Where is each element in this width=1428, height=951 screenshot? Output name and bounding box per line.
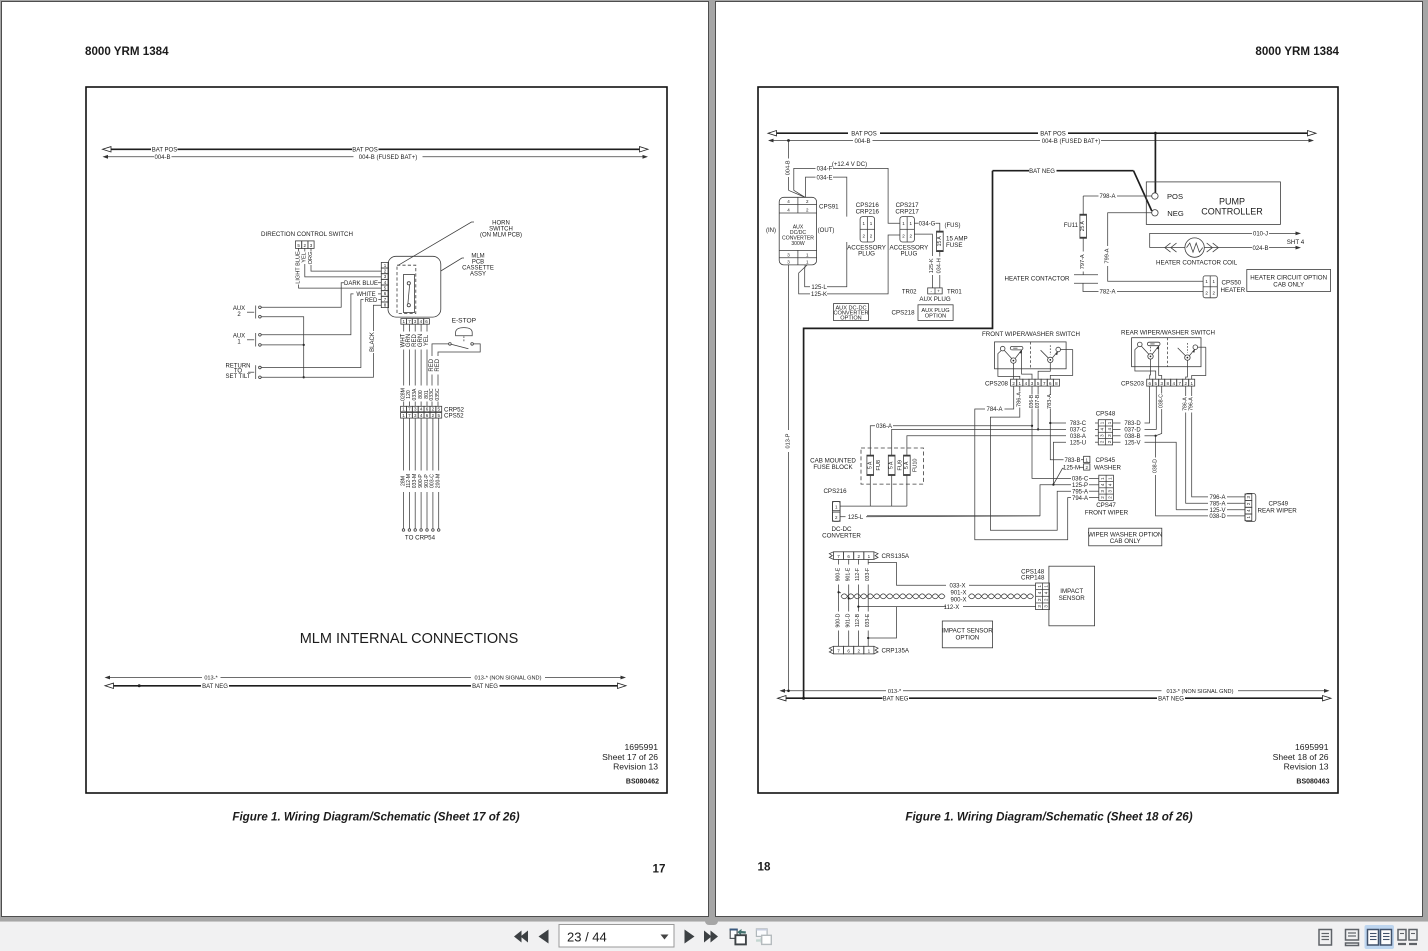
svg-text:DIRECTION CONTROL SWITCH: DIRECTION CONTROL SWITCH bbox=[261, 231, 353, 238]
svg-text:7: 7 bbox=[1178, 381, 1181, 386]
wire 037-C row FU9 bbox=[1095, 428, 1098, 430]
front wiper right blade bbox=[1041, 350, 1049, 358]
svg-text:037-B: 037-B bbox=[1035, 394, 1041, 408]
diagram border frame sheet 17 bbox=[86, 87, 667, 793]
junction dot 901-E braid bbox=[848, 597, 850, 599]
svg-text:4: 4 bbox=[420, 407, 423, 412]
svg-text:2: 2 bbox=[835, 515, 838, 520]
box IMPACT SENSOR OPTION bbox=[942, 621, 992, 648]
svg-text:2: 2 bbox=[1100, 496, 1105, 499]
svg-text:1: 1 bbox=[402, 413, 405, 418]
wire 004-B bus sheet18 bbox=[773, 140, 853, 142]
svg-text:ORG: ORG bbox=[308, 252, 314, 265]
svg-text:FU9: FU9 bbox=[897, 460, 903, 471]
fuse FU9 bbox=[888, 455, 895, 475]
wire 797-A bbox=[1082, 238, 1084, 251]
wire rear 796-A net bbox=[1191, 386, 1193, 396]
svg-text:4: 4 bbox=[1044, 591, 1049, 594]
svg-text:BAT NEG: BAT NEG bbox=[1158, 697, 1184, 703]
toolbar next-view icon (disabled) bbox=[756, 929, 771, 944]
svg-text:RED: RED bbox=[435, 358, 441, 371]
wire 024-B row bbox=[1204, 247, 1252, 249]
junction dot 112 net bbox=[857, 605, 859, 607]
svg-text:AUX PLUG: AUX PLUG bbox=[919, 296, 950, 303]
toolbar previous-view icon bbox=[730, 929, 746, 945]
svg-text:SHT 4: SHT 4 bbox=[1287, 239, 1305, 246]
svg-text:013-P: 013-P bbox=[785, 433, 791, 448]
horn switch contact upper bbox=[407, 282, 410, 285]
svg-text:795-A: 795-A bbox=[1072, 489, 1088, 495]
svg-text:CPS91: CPS91 bbox=[819, 204, 839, 211]
svg-text:5: 5 bbox=[384, 285, 387, 290]
svg-text:(OUT): (OUT) bbox=[818, 228, 835, 234]
svg-text:1: 1 bbox=[835, 504, 838, 509]
wire 783-A net bbox=[1049, 386, 1051, 394]
svg-text:1: 1 bbox=[806, 260, 809, 265]
cab fuse block dashed box bbox=[861, 448, 924, 484]
front wiper right pivot bbox=[1048, 357, 1053, 362]
connector CPS47 bbox=[1099, 475, 1114, 500]
svg-text:5 A: 5 A bbox=[867, 461, 873, 469]
diagram border frame sheet 18 bbox=[758, 87, 1338, 793]
svg-text:785-A: 785-A bbox=[1209, 502, 1225, 508]
wire E-STOP right to 035C bbox=[438, 344, 480, 356]
svg-text:125-V: 125-V bbox=[1124, 440, 1140, 446]
wire 125-L converter to CPS216 bbox=[805, 265, 810, 287]
svg-text:5: 5 bbox=[1154, 381, 1157, 386]
svg-text:CAB ONLY: CAB ONLY bbox=[1110, 538, 1141, 545]
svg-text:038-A: 038-A bbox=[1070, 434, 1086, 440]
pump controller POS terminal bbox=[1152, 193, 1158, 199]
svg-text:2: 2 bbox=[870, 234, 873, 239]
svg-text:-: - bbox=[931, 289, 933, 294]
svg-text:CRS135A: CRS135A bbox=[882, 553, 910, 560]
svg-text:1: 1 bbox=[910, 221, 913, 226]
wire 010-J row bbox=[1150, 233, 1252, 247]
junction dot aux bus at RETURN bbox=[303, 376, 305, 378]
svg-text:TO CRP54: TO CRP54 bbox=[405, 535, 436, 542]
wire 782-A bbox=[1083, 283, 1099, 291]
svg-text:034-H: 034-H bbox=[937, 258, 943, 273]
wire 037-B net bbox=[1037, 386, 1039, 394]
wire BAT NEG diagonal to NEG terminal bbox=[1134, 171, 1152, 211]
svg-text:783-B: 783-B bbox=[1064, 458, 1080, 464]
svg-text:3: 3 bbox=[384, 274, 387, 279]
connector MLM left pin column 1-8 bbox=[381, 262, 388, 268]
svg-text:1: 1 bbox=[1100, 421, 1105, 424]
wires CRS135A down bbox=[838, 559, 840, 564]
svg-text:BS080463: BS080463 bbox=[1296, 779, 1329, 786]
svg-text:2: 2 bbox=[1107, 440, 1112, 443]
svg-text:Sheet 18 of 26: Sheet 18 of 26 bbox=[1273, 752, 1329, 762]
svg-text:125-M: 125-M bbox=[1063, 466, 1080, 472]
wire 034-F net bbox=[794, 168, 816, 197]
svg-text:3: 3 bbox=[1160, 381, 1163, 386]
wire BAT POS drop to POS terminal bbox=[1154, 133, 1156, 193]
svg-text:5: 5 bbox=[297, 243, 300, 248]
wire front wiper pin3 036 bbox=[1022, 350, 1032, 379]
svg-text:900-X: 900-X bbox=[950, 597, 966, 603]
connector CPS52 bbox=[401, 413, 407, 419]
svg-text:7: 7 bbox=[408, 413, 411, 418]
svg-text:1: 1 bbox=[862, 221, 865, 226]
svg-text:CPS208: CPS208 bbox=[985, 380, 1009, 387]
junction dot 033 net lower bbox=[867, 637, 869, 639]
svg-text:CPS218: CPS218 bbox=[892, 310, 916, 317]
svg-text:+: + bbox=[937, 289, 940, 294]
svg-text:Revision 13: Revision 13 bbox=[1284, 762, 1329, 772]
wire AUX1 upper to WHITE pin6 bbox=[261, 294, 353, 335]
svg-text:PLUG: PLUG bbox=[900, 251, 917, 258]
impact sensor box bbox=[1049, 566, 1095, 626]
svg-text:1: 1 bbox=[1246, 516, 1251, 519]
wire 038-C net bbox=[1161, 386, 1163, 393]
box AUX PLUG OPTION bbox=[918, 305, 953, 321]
wires fuse bottoms to CPS216 bbox=[869, 476, 871, 507]
svg-text:CPS216: CPS216 bbox=[823, 488, 847, 495]
svg-text:3: 3 bbox=[1044, 605, 1049, 608]
wire YEL / label bbox=[304, 248, 306, 251]
svg-text:033-F: 033-F bbox=[865, 568, 871, 581]
rear wiper left blades bbox=[1142, 346, 1149, 354]
wire 125-V to CPS49 bbox=[1175, 508, 1177, 510]
svg-text:6: 6 bbox=[847, 554, 850, 559]
svg-text:YEL: YEL bbox=[424, 334, 430, 346]
wire rear wiper pin1 from contact bbox=[1192, 347, 1206, 379]
svg-text:4: 4 bbox=[1108, 483, 1113, 486]
wire 784-A net bbox=[1005, 386, 1014, 409]
svg-text:WASHER: WASHER bbox=[1094, 465, 1121, 472]
svg-text:038-D: 038-D bbox=[1152, 459, 1158, 473]
callout line MLM cassette bbox=[441, 258, 464, 271]
svg-text:798-A: 798-A bbox=[1099, 194, 1115, 200]
svg-text:BAT POS: BAT POS bbox=[152, 148, 177, 154]
svg-text:(IN): (IN) bbox=[766, 228, 776, 234]
svg-text:038-B: 038-B bbox=[1124, 434, 1140, 440]
svg-text:BAT POS: BAT POS bbox=[1040, 132, 1065, 138]
svg-text:FU8: FU8 bbox=[876, 460, 882, 471]
svg-text:(FUS): (FUS) bbox=[945, 223, 961, 229]
wire front wiper contact to box edge bbox=[1061, 349, 1073, 351]
svg-text:TR02: TR02 bbox=[902, 289, 917, 295]
wire 036-B net bbox=[1031, 386, 1033, 394]
svg-text:004-B: 004-B bbox=[854, 139, 870, 145]
wire 783-C row bbox=[1095, 422, 1098, 424]
wire 034-H fuse to aux plug + bbox=[939, 252, 941, 257]
svg-text:112-B: 112-B bbox=[855, 613, 861, 627]
svg-text:(+12.4 V DC): (+12.4 V DC) bbox=[832, 162, 867, 168]
wire BAT NEG feeder bbox=[993, 170, 1030, 172]
svg-text:013-* (NON SIGNAL GND): 013-* (NON SIGNAL GND) bbox=[1167, 689, 1234, 695]
connector CRP135A bbox=[829, 646, 833, 654]
svg-text:TR01: TR01 bbox=[947, 289, 962, 295]
rear wiper right contact bbox=[1193, 345, 1198, 350]
E-STOP mushroom head bbox=[456, 328, 473, 336]
connector CPS50 heater bbox=[1203, 276, 1217, 298]
svg-text:900-E: 900-E bbox=[835, 567, 841, 581]
svg-text:IMPACT: IMPACT bbox=[1060, 588, 1083, 595]
junction dot BAT NEG bbox=[138, 684, 141, 687]
junction dot 037 net bbox=[1037, 428, 1039, 430]
junction dot 038 net bbox=[1154, 435, 1156, 437]
callout line horn switch bbox=[398, 222, 474, 265]
horn switch blade bbox=[408, 285, 410, 304]
svg-text:4: 4 bbox=[420, 319, 423, 324]
svg-text:112-F: 112-F bbox=[855, 568, 861, 581]
svg-text:CPS49: CPS49 bbox=[1269, 501, 1289, 508]
junction dot 783 net bbox=[1049, 422, 1051, 424]
wire rear wiper pin2 from pivot bbox=[1186, 360, 1188, 379]
svg-text:783-A: 783-A bbox=[1047, 394, 1053, 409]
svg-text:3: 3 bbox=[787, 260, 790, 265]
wire LIGHT BLUE / label bbox=[298, 248, 300, 251]
wire 125-V row bbox=[1113, 441, 1121, 443]
svg-text:PLUG: PLUG bbox=[858, 251, 875, 258]
connector CPS45 pin1 bbox=[1084, 456, 1090, 462]
svg-text:2: 2 bbox=[1100, 440, 1105, 443]
svg-text:1: 1 bbox=[384, 263, 387, 268]
svg-text:FUSE BLOCK: FUSE BLOCK bbox=[813, 464, 853, 471]
wire rear wiper pin6 from pivot bbox=[1149, 359, 1152, 379]
svg-text:200-M: 200-M bbox=[436, 474, 442, 488]
wire 783-D row bbox=[1113, 422, 1121, 424]
svg-text:4: 4 bbox=[384, 280, 387, 285]
pump controller box bbox=[1146, 182, 1280, 225]
svg-text:E-STOP: E-STOP bbox=[452, 318, 477, 325]
svg-text:1: 1 bbox=[402, 407, 405, 412]
wire RETURN lower to BLACK pin8 bbox=[261, 353, 373, 377]
wire 038-D net bbox=[1155, 436, 1157, 458]
page-gap notch bbox=[705, 918, 719, 925]
svg-text:8: 8 bbox=[384, 302, 387, 307]
svg-text:1: 1 bbox=[806, 252, 809, 257]
wire 037-D row bbox=[1113, 428, 1121, 430]
svg-text:125-U: 125-U bbox=[1070, 440, 1086, 446]
toolbar page number input 23/44 bbox=[559, 925, 674, 948]
svg-text:2: 2 bbox=[432, 407, 435, 412]
horn switch contact lower bbox=[407, 304, 410, 307]
svg-text:4: 4 bbox=[787, 199, 790, 204]
wires CPS52 to CRP54 with net labels bbox=[403, 418, 405, 470]
svg-text:7: 7 bbox=[837, 554, 840, 559]
svg-text:FRONT WIPER: FRONT WIPER bbox=[1085, 510, 1129, 517]
junction dot aux bus at AUX1 bbox=[303, 344, 305, 346]
svg-text:5 A: 5 A bbox=[904, 461, 910, 469]
rear wiper left contact bbox=[1138, 342, 1143, 347]
svg-text:CRP217: CRP217 bbox=[895, 209, 919, 216]
svg-text:7: 7 bbox=[408, 319, 411, 324]
svg-text:010-J: 010-J bbox=[1253, 232, 1268, 238]
svg-text:1: 1 bbox=[1019, 381, 1022, 386]
svg-text:23 / 44: 23 / 44 bbox=[567, 930, 607, 945]
wire 013-* bus sheet17 bbox=[109, 677, 202, 679]
front wiper/washer switch box bbox=[995, 342, 1067, 369]
svg-text:901-D: 901-D bbox=[846, 613, 852, 627]
svg-text:6: 6 bbox=[384, 291, 387, 296]
svg-text:OPTION: OPTION bbox=[925, 314, 946, 320]
junction dot 036 net bbox=[1031, 425, 1033, 427]
svg-text:FU10: FU10 bbox=[913, 458, 919, 472]
svg-text:15 A: 15 A bbox=[937, 236, 943, 247]
svg-text:25 A: 25 A bbox=[1080, 221, 1086, 232]
fuse FU10 bbox=[904, 455, 911, 475]
front wiper pill contact bbox=[1010, 346, 1023, 350]
svg-text:Figure 1. Wiring Diagram/Schem: Figure 1. Wiring Diagram/Schematic (Shee… bbox=[232, 811, 519, 824]
fuse FU8 bbox=[867, 455, 874, 475]
svg-text:FUSE: FUSE bbox=[946, 242, 963, 249]
svg-text:035C: 035C bbox=[435, 388, 441, 400]
svg-text:BS080462: BS080462 bbox=[626, 779, 659, 786]
svg-text:CONVERTER: CONVERTER bbox=[822, 532, 861, 539]
svg-text:SET TILT: SET TILT bbox=[225, 374, 250, 380]
svg-text:004-B (FUSED BAT+): 004-B (FUSED BAT+) bbox=[1042, 139, 1100, 145]
svg-text:004-B: 004-B bbox=[154, 155, 170, 161]
svg-text:783-C: 783-C bbox=[1070, 421, 1087, 427]
svg-text:5 A: 5 A bbox=[889, 461, 895, 469]
junction dot 900-E braid bbox=[837, 591, 839, 593]
svg-text:1: 1 bbox=[902, 221, 905, 226]
toolbar previous-page button bbox=[539, 930, 549, 944]
toolbar single-page icon bbox=[1319, 930, 1332, 946]
MLM PCB cassette assy box bbox=[388, 256, 441, 317]
svg-text:3: 3 bbox=[1100, 434, 1105, 437]
svg-text:2: 2 bbox=[806, 199, 809, 204]
svg-text:SENSOR: SENSOR bbox=[1059, 595, 1086, 602]
toolbar first-page button bbox=[514, 931, 528, 943]
svg-text:125-V: 125-V bbox=[1209, 508, 1225, 514]
wire 798-A bbox=[1083, 195, 1098, 197]
svg-text:3: 3 bbox=[1108, 489, 1113, 492]
svg-text:(ON MLM PCB): (ON MLM PCB) bbox=[480, 233, 522, 239]
svg-text:1: 1 bbox=[1037, 585, 1042, 588]
heater contactor coil bbox=[1150, 247, 1185, 249]
svg-text:4: 4 bbox=[1107, 428, 1112, 431]
junction dot 004-B feed bbox=[787, 139, 790, 142]
svg-text:8: 8 bbox=[1166, 381, 1169, 386]
svg-text:125-K: 125-K bbox=[811, 292, 827, 298]
svg-text:2: 2 bbox=[384, 269, 387, 274]
svg-text:4: 4 bbox=[787, 207, 790, 212]
wire AUX2 upper to DARK BLUE pin4 bbox=[261, 283, 344, 308]
svg-text:BAT NEG: BAT NEG bbox=[1029, 169, 1055, 175]
svg-text:HEATER CONTACTOR COIL: HEATER CONTACTOR COIL bbox=[1156, 259, 1238, 266]
junction dot 125 net bbox=[1052, 483, 1054, 485]
svg-text:799-A: 799-A bbox=[1105, 248, 1111, 263]
wire 125-U row bbox=[1095, 441, 1098, 443]
svg-text:POS: POS bbox=[1167, 192, 1183, 201]
svg-text:7: 7 bbox=[837, 649, 840, 654]
svg-text:BAT NEG: BAT NEG bbox=[202, 684, 228, 690]
wire front wiper pin1 786 bbox=[998, 351, 1020, 380]
svg-text:033-E: 033-E bbox=[865, 613, 871, 627]
svg-text:FU11: FU11 bbox=[1064, 223, 1079, 229]
svg-text:HEATER: HEATER bbox=[1221, 287, 1246, 294]
svg-text:CAB ONLY: CAB ONLY bbox=[1273, 282, 1304, 289]
svg-text:038-C: 038-C bbox=[1159, 394, 1165, 408]
svg-text:6: 6 bbox=[847, 649, 850, 654]
svg-text:CRP135A: CRP135A bbox=[882, 648, 910, 655]
svg-text:1: 1 bbox=[868, 554, 871, 559]
E-STOP switch blade bbox=[451, 344, 468, 348]
wire 038-B row bbox=[1113, 435, 1121, 437]
svg-text:3: 3 bbox=[787, 252, 790, 257]
svg-text:DARK BLUE: DARK BLUE bbox=[344, 281, 378, 287]
wire rear 786-A net bbox=[1185, 386, 1187, 396]
svg-text:2: 2 bbox=[1205, 290, 1208, 295]
svg-text:BAT POS: BAT POS bbox=[851, 132, 876, 138]
wire BAT NEG bus sheet17 bbox=[114, 685, 202, 687]
wire AUX2 lower / common bus bbox=[261, 317, 304, 378]
svg-text:CPS48: CPS48 bbox=[1096, 410, 1116, 417]
wire 799-A NEG to heater bbox=[1108, 213, 1152, 246]
wire 036-A FU8 bbox=[870, 426, 875, 455]
svg-text:125-L: 125-L bbox=[848, 515, 864, 521]
svg-text:900-D: 900-D bbox=[835, 613, 841, 627]
svg-text:4: 4 bbox=[1246, 509, 1251, 512]
svg-text:CONTROLLER: CONTROLLER bbox=[1201, 207, 1263, 217]
svg-text:024-B: 024-B bbox=[1252, 246, 1268, 252]
svg-text:18: 18 bbox=[758, 861, 771, 874]
svg-text:7: 7 bbox=[384, 297, 387, 302]
svg-text:REAR WIPER: REAR WIPER bbox=[1258, 508, 1298, 515]
rear wiper right pivot bbox=[1185, 355, 1190, 360]
toolbar last-page button bbox=[704, 931, 718, 943]
wire 013-P converter to ground bus bbox=[788, 265, 790, 430]
svg-text:8000 YRM 1384: 8000 YRM 1384 bbox=[1255, 45, 1339, 58]
wire 004-B drop to converter bbox=[788, 141, 790, 159]
svg-text:REAR WIPER/WASHER SWITCH: REAR WIPER/WASHER SWITCH bbox=[1121, 330, 1215, 337]
svg-text:Figure 1. Wiring Diagram/Schem: Figure 1. Wiring Diagram/Schematic (Shee… bbox=[905, 811, 1192, 824]
rear wiper right blade bbox=[1178, 348, 1186, 356]
wire rear wiper pin3 from pill bbox=[1159, 346, 1162, 380]
rear wiper left pivot bbox=[1148, 354, 1153, 359]
svg-text:1: 1 bbox=[1205, 279, 1208, 284]
junction dot BAT POS pump bbox=[1154, 132, 1157, 135]
svg-text:037-C: 037-C bbox=[1070, 428, 1087, 434]
toolbar two-page-scroll icon bbox=[1398, 930, 1417, 945]
svg-text:2: 2 bbox=[857, 649, 860, 654]
toolbar next-page button bbox=[685, 930, 695, 944]
svg-text:125-L: 125-L bbox=[811, 285, 827, 291]
connector CPS49 rear wiper bbox=[1245, 493, 1256, 521]
box AUX DC-DC CONVERTER OPTION bbox=[834, 304, 869, 321]
wire FU11 feed bbox=[1082, 196, 1084, 214]
svg-text:3: 3 bbox=[414, 413, 417, 418]
svg-text:RED: RED bbox=[365, 298, 378, 304]
front wiper right blade2 with arrow bbox=[1052, 352, 1057, 358]
wire BAT NEG bus sheet18 bbox=[786, 697, 883, 699]
E-STOP stem dashed bbox=[463, 336, 465, 342]
wire BAT POS bus sheet17 bbox=[111, 148, 151, 150]
svg-text:5: 5 bbox=[437, 407, 440, 412]
wire 125 to 125-L bbox=[867, 485, 1053, 516]
svg-text:Sheet 17 of 26: Sheet 17 of 26 bbox=[602, 752, 658, 762]
svg-text:7: 7 bbox=[1043, 381, 1046, 386]
horn switch inner box bbox=[404, 275, 415, 313]
wire 034-G to fuse bbox=[914, 222, 918, 224]
svg-text:2: 2 bbox=[857, 554, 860, 559]
wires MLM bottom connector to CRP52 bbox=[403, 324, 405, 331]
wire BAT NEG vertical routing bbox=[804, 171, 993, 699]
junction dot 013-P bbox=[787, 690, 790, 693]
svg-text:CPS52: CPS52 bbox=[444, 413, 464, 420]
svg-text:BAT NEG: BAT NEG bbox=[472, 684, 498, 690]
svg-text:2: 2 bbox=[1044, 598, 1049, 601]
wire rear wiper contact to box edge bbox=[1198, 346, 1206, 348]
wire 013-* bus sheet18 bbox=[783, 690, 886, 692]
svg-text:034-E: 034-E bbox=[816, 175, 832, 181]
twisted pair braid bbox=[841, 594, 945, 599]
